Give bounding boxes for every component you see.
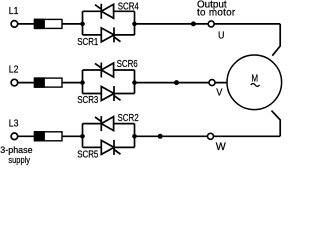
svg-text:L1: L1: [9, 6, 19, 17]
svg-text:to motor: to motor: [197, 7, 236, 18]
svg-text:SCR3: SCR3: [77, 94, 98, 105]
svg-text:W: W: [216, 141, 226, 153]
svg-text:supply: supply: [8, 154, 30, 165]
svg-text:SCR2: SCR2: [118, 112, 139, 123]
svg-text:U: U: [218, 30, 224, 42]
svg-text:SCR6: SCR6: [117, 58, 138, 69]
svg-text:V: V: [216, 87, 223, 99]
svg-text:SCR4: SCR4: [118, 0, 139, 11]
svg-text:L3: L3: [9, 118, 19, 129]
svg-text:SCR1: SCR1: [77, 36, 98, 47]
svg-text:M: M: [251, 73, 258, 84]
svg-text:L2: L2: [9, 64, 19, 75]
svg-text:SCR5: SCR5: [77, 149, 98, 160]
